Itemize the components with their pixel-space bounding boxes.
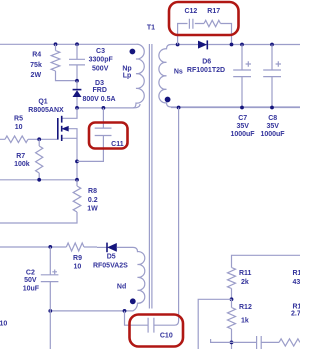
svg-text:C11: C11 xyxy=(111,141,124,148)
svg-text:Lp: Lp xyxy=(123,73,132,80)
capacitor C3 xyxy=(69,44,85,81)
wire aux return xyxy=(50,310,124,312)
resistor R9 xyxy=(66,243,97,251)
wire gate return rail xyxy=(0,179,77,181)
svg-text:R17: R17 xyxy=(207,8,220,15)
svg-text:C7: C7 xyxy=(238,115,247,122)
svg-text:R11: R11 xyxy=(239,270,252,277)
wire snubber loop xyxy=(178,24,232,45)
svg-text:RF1001T2D: RF1001T2D xyxy=(187,67,225,74)
svg-text:Q1: Q1 xyxy=(38,99,47,106)
wire C10 link xyxy=(125,311,149,325)
resistor R5 xyxy=(0,136,57,143)
svg-text:10: 10 xyxy=(0,321,7,328)
wire feedback mid tap xyxy=(198,299,231,349)
svg-text:2k: 2k xyxy=(241,279,249,286)
svg-text:0.2: 0.2 xyxy=(88,197,98,204)
node clamp junction xyxy=(75,79,79,83)
svg-text:R4: R4 xyxy=(32,52,41,59)
capacitor C8 xyxy=(263,45,281,108)
svg-text:10: 10 xyxy=(74,263,82,270)
wire feedback top rail xyxy=(232,255,301,267)
node snubber left junction xyxy=(176,43,180,47)
svg-text:500V: 500V xyxy=(92,66,109,73)
highlight box C12 R17 xyxy=(169,2,239,35)
wire drain rail to primary bottom xyxy=(77,104,140,108)
wire top input rail xyxy=(0,43,136,45)
node source junction xyxy=(75,178,79,182)
node C7 top junction xyxy=(240,43,244,47)
resistor R17 xyxy=(204,20,221,26)
svg-text:800V 0.5A: 800V 0.5A xyxy=(82,96,115,103)
svg-text:1000uF: 1000uF xyxy=(230,131,255,138)
node R11 R12 junction xyxy=(230,297,234,301)
node C3/D3 top junction xyxy=(75,42,79,46)
resistor R8 xyxy=(0,180,81,223)
transformer primary winding Np xyxy=(133,44,144,108)
svg-text:D6: D6 xyxy=(202,58,211,65)
svg-text:R15: R15 xyxy=(293,270,301,277)
svg-text:50V: 50V xyxy=(24,277,37,284)
svg-text:C12: C12 xyxy=(184,8,197,15)
resistor R12 xyxy=(228,299,236,349)
node C7 bottom junction xyxy=(240,106,244,110)
svg-text:100k: 100k xyxy=(14,161,30,168)
resistor R4 xyxy=(51,44,77,80)
svg-text:1k: 1k xyxy=(241,317,249,324)
svg-text:R7: R7 xyxy=(16,153,25,160)
svg-text:D3: D3 xyxy=(95,80,104,87)
svg-text:1000uF: 1000uF xyxy=(260,131,285,138)
transformer aux winding Nd xyxy=(117,247,145,311)
transformer core xyxy=(149,44,152,309)
svg-text:RF05VA2S: RF05VA2S xyxy=(93,262,128,269)
node C2 bottom junction xyxy=(48,309,52,313)
node aux return junction xyxy=(123,309,127,313)
svg-text:Nd: Nd xyxy=(117,284,126,291)
capacitor C10 xyxy=(148,318,154,333)
wire secondary return down xyxy=(154,108,179,326)
svg-text:Np: Np xyxy=(122,65,131,72)
wire primary ground down xyxy=(49,311,51,349)
capacitor C11 xyxy=(77,108,112,161)
wire secondary ground rail xyxy=(171,107,300,109)
svg-text:35V: 35V xyxy=(266,123,279,130)
svg-text:D5: D5 xyxy=(107,254,116,261)
node secondary return junction xyxy=(177,106,181,110)
svg-text:C2: C2 xyxy=(26,269,35,276)
diode D6 xyxy=(198,41,207,49)
node D6 cathode junction xyxy=(230,43,234,47)
svg-text:C8: C8 xyxy=(268,115,277,122)
node C2 top junction xyxy=(48,245,52,249)
svg-text:Ns: Ns xyxy=(174,69,183,76)
node C8 top junction xyxy=(270,43,274,47)
node R12 bottom junction xyxy=(230,341,234,345)
transformer secondary winding Ns xyxy=(159,45,300,108)
resistor R18 xyxy=(279,339,300,346)
wire bottom feedback rail xyxy=(211,339,257,342)
wire aux rail xyxy=(0,246,66,248)
svg-text:C3: C3 xyxy=(96,48,105,55)
svg-text:35V: 35V xyxy=(236,123,249,130)
capacitor C2 xyxy=(41,247,59,311)
node R4 top junction xyxy=(54,42,58,46)
svg-text:2.7k: 2.7k xyxy=(291,310,300,317)
svg-text:1W: 1W xyxy=(87,205,98,212)
capacitor C12 xyxy=(189,19,193,29)
svg-text:R9: R9 xyxy=(73,255,82,262)
svg-text:C10: C10 xyxy=(160,332,173,339)
node gate junction xyxy=(37,137,41,141)
node C8 bottom junction xyxy=(270,106,274,110)
diode D3 xyxy=(76,81,78,108)
svg-text:R8005ANX: R8005ANX xyxy=(28,107,64,114)
wire output rail xyxy=(208,44,300,46)
node primary polarity dot xyxy=(130,49,136,55)
resistor R7 xyxy=(36,139,43,180)
svg-text:R8: R8 xyxy=(88,188,97,195)
svg-text:2W: 2W xyxy=(31,72,42,79)
highlight box C10 xyxy=(130,315,184,347)
node aux polarity dot xyxy=(130,298,136,304)
svg-text:FRD: FRD xyxy=(93,87,107,94)
svg-text:10uF: 10uF xyxy=(23,285,40,292)
resistor R11 xyxy=(228,268,236,300)
highlight box C11 xyxy=(89,123,128,149)
svg-text:R12: R12 xyxy=(239,304,252,311)
svg-text:3300pF: 3300pF xyxy=(89,57,114,64)
node C11 top junction xyxy=(102,106,106,110)
svg-text:R5: R5 xyxy=(14,116,23,123)
node secondary polarity dot xyxy=(165,97,171,103)
svg-text:75k: 75k xyxy=(30,62,42,69)
capacitor C7 xyxy=(233,45,251,108)
svg-text:R16: R16 xyxy=(293,303,301,310)
capacitor C13 xyxy=(257,336,279,349)
node drain junction xyxy=(75,106,79,110)
node R7 bottom junction xyxy=(37,178,41,182)
svg-text:43k: 43k xyxy=(293,279,301,286)
node C11 bottom junction xyxy=(75,160,79,164)
svg-text:T1: T1 xyxy=(147,25,155,32)
diode D5 xyxy=(97,246,107,248)
svg-text:10: 10 xyxy=(15,124,23,131)
